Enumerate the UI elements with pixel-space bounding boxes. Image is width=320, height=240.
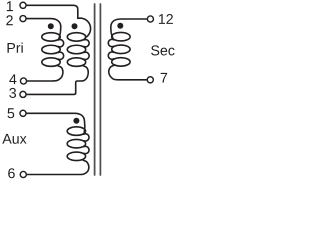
phase dot left primary [48,23,54,29]
label Pri [8,43,23,53]
wire aux coil to pin6 [27,160,89,175]
pin 5 terminal [20,110,26,116]
pin 6 terminal [20,171,26,177]
wire left coil to pin4 [27,66,63,81]
pin 2 terminal [20,16,26,22]
secondary winding [108,32,130,66]
wire right coil to pin3 [27,66,88,95]
pin 4 terminal [20,78,26,84]
label pin 4 [9,74,16,84]
wire pin1 to right primary coil [26,5,90,37]
label pin 5 [8,108,15,118]
aux winding [67,127,89,161]
label Aux [2,134,26,144]
label pin 3 [9,88,16,98]
pin 1 terminal [20,2,26,8]
pin 7 terminal [147,77,153,83]
transformer core [94,4,96,175]
primary winding P1 (left coil) [42,33,64,67]
wire secondary coil to pin7 [109,65,147,80]
label Sec [151,45,174,55]
label pin 7 [161,73,167,83]
label pin 1 [7,1,13,11]
primary winding P2 (right coil) [67,33,89,67]
label pin 12 [159,14,173,24]
phase dot aux [73,118,79,124]
wire pin2 to left primary coil [26,19,61,40]
pin 3 terminal [20,91,26,97]
label pin 2 [6,15,12,25]
phase dot secondary [117,23,123,29]
label pin 6 [8,168,15,178]
pin 12 terminal [147,16,153,22]
wire pin5 to aux coil [27,113,85,134]
phase dot right primary [72,23,78,29]
wire pin12 to secondary coil [111,19,147,40]
